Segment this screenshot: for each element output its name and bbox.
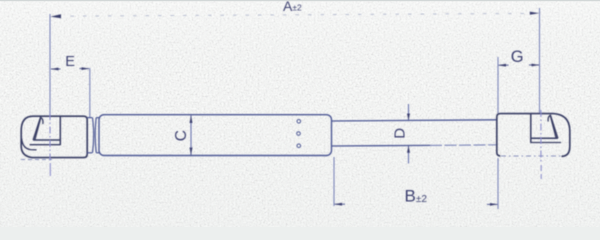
vent hole 3	[297, 144, 301, 148]
piston rod bottom edge	[332, 144, 431, 147]
dimension A±2 dashed dimension line	[58, 13, 531, 16]
svg-text:E: E	[65, 54, 75, 70]
dimension E extension line right (x=89.8)	[89, 68, 91, 117]
right bracket hidden bottom dash-dot	[501, 155, 562, 157]
right bracket hook vertical	[530, 114, 532, 143]
left bracket hook vertical	[59, 116, 61, 144]
dimension G left arrow + stub	[499, 64, 509, 66]
svg-text:A±2: A±2	[283, 0, 302, 14]
dimension A±2 right arrowhead	[530, 12, 539, 15]
svg-text:D: D	[392, 128, 409, 139]
dimension A±2 extension line left (x=50)	[49, 14, 51, 116]
dimension E left arrow + stub	[51, 68, 61, 70]
left bracket folded tab (wedge)	[33, 117, 40, 140]
dimension B±2 extension line right (x=498)	[497, 158, 499, 209]
right eye bracket outer outline	[497, 114, 570, 157]
dimension A±2 left arrowhead	[50, 14, 61, 18]
cylinder body (pressure tube)	[99, 115, 332, 156]
left bracket metal thickness curve	[22, 139, 37, 150]
piston rod top edge	[332, 120, 498, 121]
scan edge top	[0, 0, 600, 1]
right bracket folded tab (wedge)	[550, 115, 558, 138]
dimension A±2 extension line right (x=539.5)	[539, 8, 541, 113]
svg-text:G: G	[511, 48, 524, 66]
dimension B±2 extension line left (x=334)	[333, 157, 335, 206]
right eye centerline (dash-dot)	[540, 110, 542, 162]
dimension B±2 right arrow + stub	[487, 203, 497, 205]
vent hole 1	[297, 120, 301, 124]
right bracket hook bottom lines	[531, 137, 558, 139]
dimension B±2 left arrow + stub	[335, 203, 345, 205]
dimension C line with arrows	[190, 116, 192, 156]
svg-text:C: C	[173, 130, 190, 141]
dimension G right arrow + stub	[529, 64, 539, 66]
left bracket hook bottom lines	[33, 139, 60, 141]
left eye centerline (dash-dot)	[49, 113, 51, 161]
left bracket hidden bottom dashes	[21, 159, 52, 161]
dimension E right arrow + stub	[80, 68, 90, 70]
vent hole 2	[297, 132, 301, 136]
dimension D line with arrows	[408, 104, 410, 120]
dimension G extension line left (x=498)	[497, 57, 499, 113]
neck between bracket and cylinder	[87, 117, 92, 119]
left eye bracket outer outline	[21, 116, 87, 157]
